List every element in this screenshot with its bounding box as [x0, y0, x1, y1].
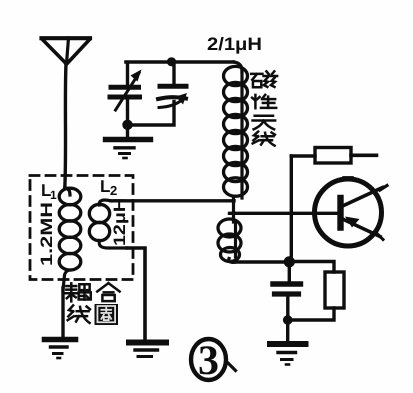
inductor L3 magnetic antenna coil (upper section)	[224, 62, 248, 198]
label circled 3	[191, 338, 236, 384]
wire antenna down-lead	[65, 64, 66, 189]
inductor L3 lower section	[218, 198, 241, 262]
transistor Q1	[315, 178, 388, 246]
wire vertical feedback line	[290, 156, 293, 262]
wire coil bottom to node	[236, 260, 289, 263]
label 磁性天线	[251, 71, 277, 145]
inductor L1	[59, 188, 81, 290]
svg-text:12μH: 12μH	[111, 198, 129, 246]
svg-text:3: 3	[198, 338, 219, 384]
wire L2 to ground	[127, 248, 145, 339]
coupling coil dashed box	[30, 176, 133, 280]
resistor R1	[291, 148, 376, 164]
svg-text:1.2MH: 1.2MH	[38, 202, 56, 266]
resistor R2	[325, 272, 344, 308]
capacitor C2 (trimmer)	[130, 63, 187, 125]
antenna	[42, 38, 91, 64]
wire R2 bottom to node	[288, 308, 334, 320]
junction dot emitter node	[284, 256, 295, 267]
ground G3	[270, 320, 306, 365]
junction dot left node	[122, 120, 132, 130]
svg-text:2: 2	[110, 183, 117, 198]
wire tap to L2	[111, 199, 234, 202]
wire L1 to ground	[61, 288, 64, 337]
capacitor C1 (variable)	[110, 63, 142, 123]
junction dot top	[167, 57, 176, 66]
capacitor C3	[273, 262, 301, 319]
ground G4	[45, 340, 76, 359]
ground G1	[106, 125, 151, 158]
label 耦合线圈	[66, 283, 120, 325]
svg-text:2/1μH: 2/1μH	[207, 34, 262, 54]
svg-text:L: L	[100, 177, 110, 196]
wire top net to coil	[126, 60, 234, 64]
junction dot bottom node	[283, 315, 293, 325]
wire node to R2 top	[289, 262, 334, 273]
svg-text:1: 1	[50, 188, 57, 202]
inductor L2	[89, 200, 127, 248]
wire base wire	[230, 212, 339, 215]
ground G5	[129, 343, 166, 357]
